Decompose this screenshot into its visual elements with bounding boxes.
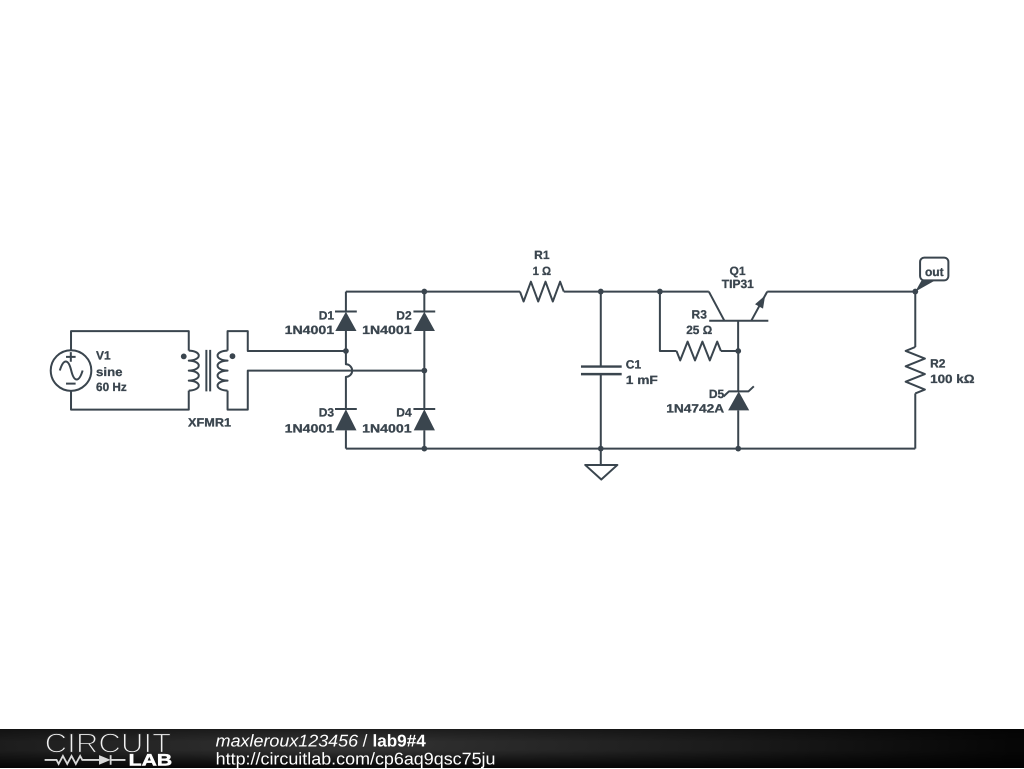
svg-text:1N4001: 1N4001: [362, 323, 412, 337]
node dot secondary-bottom / D2-D4: [421, 368, 427, 374]
svg-text:maxleroux123456/lab9#4: maxleroux123456/lab9#4: [216, 731, 427, 750]
svg-text:out: out: [925, 265, 944, 279]
secondary phase dot: [230, 353, 236, 359]
wire secondary top to bridge: [228, 331, 346, 351]
svg-text:1N4742A: 1N4742A: [666, 402, 724, 416]
D2 label: [362, 309, 412, 337]
diode D1: [335, 311, 357, 331]
node dot R3 branch: [657, 289, 663, 295]
svg-text:TIP31: TIP31: [722, 277, 754, 291]
resistor R1: [520, 282, 564, 302]
svg-text:D1: D1: [319, 309, 335, 323]
wire R2 to bottom rail: [914, 393, 916, 448]
svg-text:D3: D3: [319, 406, 335, 420]
svg-text:XFMR1: XFMR1: [188, 416, 231, 430]
transformer core: [206, 350, 210, 391]
wire D1 lead top: [345, 292, 347, 312]
transformer XFMR1 secondary coil: [218, 351, 228, 391]
svg-text:R2: R2: [930, 357, 946, 371]
svg-text:LAB: LAB: [129, 751, 173, 769]
ground: [585, 449, 617, 480]
wire with hop over secondary-bottom wire: [346, 351, 352, 409]
wire out node to R2: [914, 292, 916, 347]
V1 labels: [96, 349, 127, 394]
resistor R2: [906, 347, 925, 393]
node dot secondary-top / D1-D3: [343, 348, 349, 354]
logo squiggle diode: [99, 755, 111, 765]
node dot D2 top rail: [421, 289, 427, 295]
wire D4 lead bottom: [423, 430, 425, 448]
wire V1 top to transformer primary: [71, 331, 189, 351]
diode D2: [413, 311, 435, 331]
wire V1 bottom to transformer primary: [71, 391, 189, 410]
wire R1 to collector corner: [564, 291, 709, 293]
wire D4 lead top: [423, 371, 425, 409]
node dot D5 bottom: [735, 446, 741, 452]
capacitor C1: [581, 292, 622, 449]
out flag box: [920, 258, 948, 281]
svg-text:sine: sine: [96, 365, 123, 379]
svg-text:25 Ω: 25 Ω: [686, 323, 712, 337]
svg-text:R1: R1: [534, 248, 550, 262]
svg-text:R3: R3: [692, 307, 708, 321]
svg-text:1 Ω: 1 Ω: [533, 264, 552, 278]
svg-text:1N4001: 1N4001: [285, 323, 335, 337]
logo squiggle wire resistor: [45, 755, 126, 765]
svg-text:V1: V1: [96, 349, 111, 363]
transformer XFMR1 primary coil: [189, 351, 199, 391]
wire D2 to node: [423, 331, 425, 371]
wire D2 lead top: [423, 292, 425, 312]
diode D3: [335, 409, 357, 430]
transistor Q1: [709, 292, 769, 351]
primary phase dot: [181, 354, 187, 360]
svg-text:60 Hz: 60 Hz: [96, 380, 127, 394]
resistor R3: [677, 342, 721, 361]
diode D4: [413, 409, 435, 430]
bottom black banner: [0, 729, 1024, 769]
R1 labels: [533, 248, 552, 278]
svg-text:D2: D2: [396, 309, 412, 323]
wire R3 branch down and to zigzag: [660, 292, 677, 351]
svg-text:D4: D4: [396, 406, 412, 420]
wire top rail bridge to R1: [346, 291, 520, 293]
svg-text:1N4001: 1N4001: [362, 421, 412, 435]
R3 labels: [686, 307, 712, 336]
wire emitter to out node: [767, 291, 915, 293]
bottom rail wire: [346, 448, 915, 450]
R2 labels: [930, 357, 975, 387]
wire D3 lead bottom: [345, 430, 347, 448]
node dot out: [912, 289, 918, 295]
svg-text:1 mF: 1 mF: [626, 373, 658, 387]
D3 label: [285, 406, 335, 436]
D4 label: [362, 406, 412, 436]
D1 label: [285, 309, 335, 337]
wire base node to zener: [737, 351, 739, 391]
Q1 labels: [722, 264, 754, 291]
wire R3 to base node: [721, 350, 738, 352]
node dot ground: [598, 446, 604, 452]
wire zener to bottom rail: [737, 410, 739, 448]
node dot D4 bottom: [421, 446, 427, 452]
svg-text:C1: C1: [626, 357, 642, 371]
voltage source V1: [51, 350, 92, 391]
svg-text:D5: D5: [709, 387, 725, 401]
wire D1 to node: [345, 331, 347, 351]
node dot R3/D5/base: [735, 348, 741, 354]
svg-text:http://circuitlab.com/cp6aq9qs: http://circuitlab.com/cp6aq9qsc75ju: [216, 749, 496, 768]
svg-text:1N4001: 1N4001: [285, 421, 335, 435]
out flag pointer: [915, 280, 934, 292]
svg-text:100 kΩ: 100 kΩ: [930, 372, 975, 386]
C1 labels: [626, 357, 658, 387]
D5 labels: [666, 387, 724, 415]
node dot C1 top: [598, 289, 604, 295]
zener diode D5: [724, 386, 754, 410]
wire secondary bottom to bridge: [228, 371, 425, 410]
svg-text:Q1: Q1: [730, 264, 746, 278]
